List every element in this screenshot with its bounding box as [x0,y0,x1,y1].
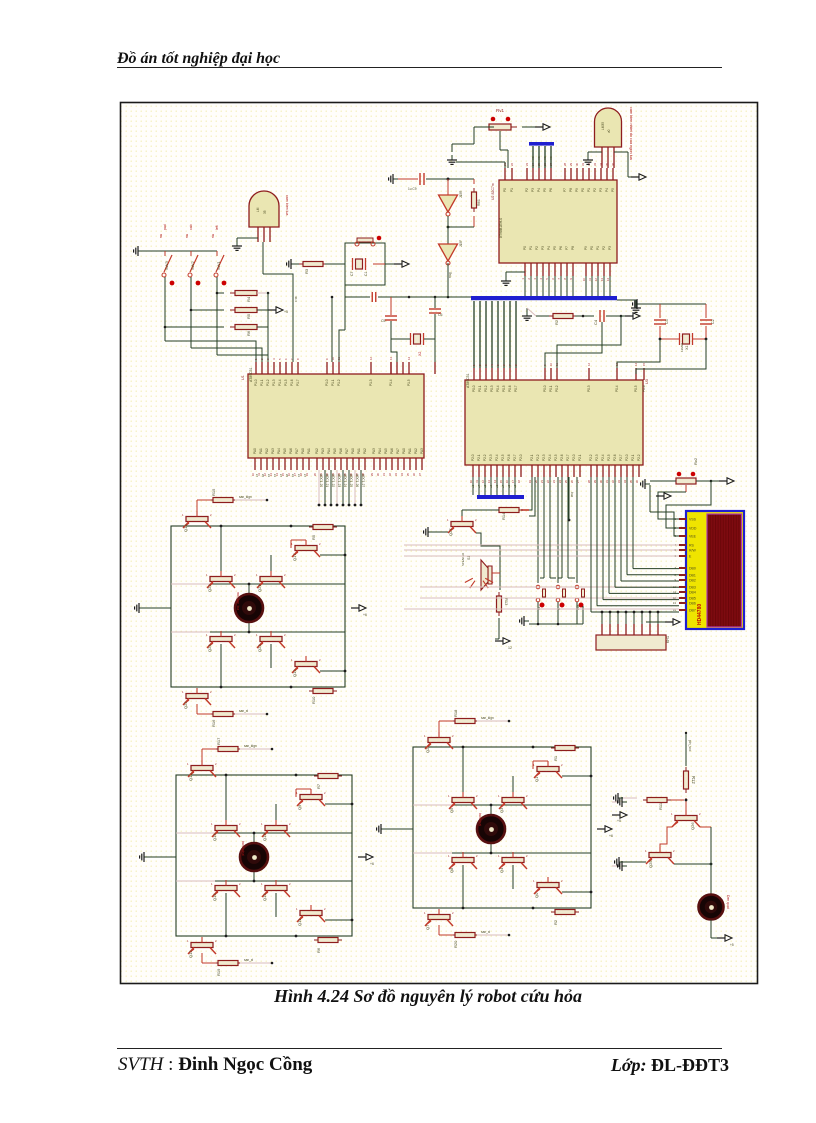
svg-text:Den quat: Den quat [726,895,730,909]
svg-text:a5: a5 [483,484,487,488]
svg-text:Q11: Q11 [297,918,302,926]
svg-text:san_xl: san_xl [239,709,249,713]
svg-text:pin_vcc: pin_vcc [688,740,692,752]
svg-text:14: 14 [634,362,638,366]
svg-text:sw: sw [211,233,215,238]
svg-text:P0.3: P0.3 [587,385,591,392]
svg-text:a1: a1 [495,484,499,488]
svg-text:30: 30 [376,473,380,477]
svg-text:R5: R5 [246,313,251,319]
svg-text:PA3: PA3 [372,448,376,454]
svg-text:P2.6: P2.6 [613,454,617,461]
svg-text:SW2: SW2 [190,261,195,270]
svg-text:P1.5: P1.5 [284,379,288,386]
svg-text:Rv1: Rv1 [496,108,504,113]
svg-text:26: 26 [570,480,574,484]
svg-text:DB0: DB0 [689,567,696,571]
svg-text:DB3: DB3 [689,586,696,590]
svg-text:Q17: Q17 [292,553,297,561]
svg-text:VSS: VSS [689,518,697,522]
svg-text:R3: R3 [304,268,309,274]
svg-text:PA6: PA6 [390,448,394,454]
svg-text:10: 10 [469,480,473,484]
svg-text:20: 20 [313,473,317,477]
svg-text:10: 10 [251,473,255,477]
svg-text:cab: cab [189,224,193,230]
svg-text:P1.5: P1.5 [407,379,411,386]
svg-text:34: 34 [400,473,404,477]
svg-text:Q19: Q19 [292,669,297,677]
svg-text:pad: pad [163,224,167,230]
svg-text:P0.1: P0.1 [549,385,553,392]
svg-text:SPEAKER: SPEAKER [461,553,465,566]
svg-text:P2.2: P2.2 [483,454,487,461]
svg-text:17: 17 [511,480,515,484]
svg-text:Q0: Q0 [534,892,539,898]
svg-text:VDD: VDD [689,527,697,531]
svg-text:P2.7: P2.7 [513,454,517,461]
svg-text:P2.0: P2.0 [625,454,629,461]
svg-text:Q13: Q13 [262,833,267,841]
svg-text:DB7: DB7 [689,609,696,613]
svg-text:P1.2: P1.2 [337,379,341,386]
svg-text:PA4: PA4 [327,448,331,454]
svg-text:18: 18 [517,480,521,484]
svg-text:R15: R15 [211,488,216,496]
svg-text:X1: X1 [685,345,689,350]
svg-text:V0: V0 [549,156,553,160]
svg-text:21: 21 [540,480,544,484]
svg-text:23: 23 [525,162,529,166]
svg-text:k5: k5 [285,474,289,478]
svg-text:P0.6: P0.6 [508,385,512,392]
svg-text:P2.5: P2.5 [554,454,558,461]
svg-text:Q8: Q8 [449,867,454,873]
svg-text:P9: P9 [575,188,579,192]
svg-text:P2.5: P2.5 [501,454,505,461]
svg-text:10: 10 [549,362,553,366]
svg-text:34: 34 [623,480,627,484]
svg-text:P5: P5 [611,188,615,192]
svg-text:Q12: Q12 [188,950,193,958]
svg-text:P5: P5 [553,246,557,250]
svg-text:P0.3: P0.3 [490,385,494,392]
svg-text:SW1: SW1 [216,261,221,270]
svg-text:PA7: PA7 [345,448,349,454]
svg-text:P0.0: P0.0 [543,385,547,392]
svg-text:1u C9: 1u C9 [408,187,417,191]
svg-text:ADC1-24: ADC1-24 [343,474,347,487]
svg-text:R18: R18 [453,709,458,717]
svg-text:R4: R4 [246,296,251,302]
svg-text:P2.4: P2.4 [548,454,552,461]
svg-text:P1.4: P1.4 [278,379,282,386]
svg-text:P5: P5 [543,188,547,192]
svg-text:P0: P0 [581,188,585,192]
svg-text:P2.2: P2.2 [637,454,641,461]
svg-text:R16: R16 [211,719,216,727]
svg-text:C1: C1 [364,272,368,276]
svg-text:AT89C51: AT89C51 [249,367,253,382]
svg-text:P1.0: P1.0 [325,379,329,386]
svg-text:k7: k7 [279,474,283,478]
svg-text:C2: C2 [711,319,715,324]
svg-text:Q7: Q7 [425,924,430,930]
svg-text:U2 82C7m: U2 82C7m [491,183,495,200]
svg-text:Q3: Q3 [499,807,504,813]
svg-text:PA4: PA4 [378,448,382,454]
svg-text:k5: k5 [261,474,265,478]
svg-text:12: 12 [508,646,512,650]
svg-text:33: 33 [617,480,621,484]
svg-text:P1.0: P1.0 [254,379,258,386]
svg-text:P2: P2 [535,246,539,250]
svg-text:banh trai: banh trai [478,813,482,826]
svg-text:k3: k3 [291,474,295,478]
svg-text:Q21: Q21 [257,584,262,592]
svg-text:14: 14 [606,278,610,282]
svg-text:Q22: Q22 [207,584,212,592]
svg-text:11: 11 [588,278,592,281]
svg-text:12: 12 [594,278,598,282]
svg-text:12: 12 [481,480,485,484]
svg-text:8T98B1EH-0: 8T98B1EH-0 [499,218,503,238]
svg-text:25: 25 [564,480,568,484]
svg-text:C5: C5 [381,319,386,323]
svg-text:ADC1-23: ADC1-23 [337,474,341,487]
svg-text:P2.0: P2.0 [572,454,576,461]
svg-text:san_klgn: san_klgn [244,744,257,748]
svg-text:Q15: Q15 [262,893,267,901]
svg-text:P1.1: P1.1 [331,379,335,386]
svg-text:P2.3: P2.3 [489,454,493,461]
svg-text:35: 35 [629,480,633,484]
svg-text:R5: R5 [311,534,316,540]
svg-text:V0: V0 [537,156,541,160]
svg-text:19: 19 [528,480,532,484]
svg-text:C4: C4 [593,319,598,325]
svg-text:Q14: Q14 [212,833,217,841]
svg-text:P3: P3 [608,246,612,250]
svg-text:P1: P1 [529,246,533,250]
svg-text:R10: R10 [311,696,316,704]
svg-text:P2.7: P2.7 [566,454,570,461]
svg-text:PA5: PA5 [333,448,337,454]
svg-text:a3: a3 [489,484,493,488]
svg-text:+5: +5 [617,819,621,823]
svg-text:ADC1-27: ADC1-27 [361,474,365,487]
svg-text:Rv2: Rv2 [693,457,698,465]
svg-text:DB6: DB6 [689,602,696,606]
svg-text:P0: P0 [503,188,507,192]
svg-text:+6: +6 [363,613,367,617]
svg-text:k3: k3 [267,474,271,478]
svg-text:P0.7: P0.7 [514,385,518,392]
svg-text:P0.2: P0.2 [555,385,559,392]
svg-text:+6: +6 [370,862,374,866]
svg-text:LM: LM [256,207,260,212]
svg-text:36: 36 [412,473,416,477]
svg-text:R12: R12 [691,776,696,784]
svg-text:P0.2: P0.2 [484,385,488,392]
svg-text:k1: k1 [297,474,301,478]
svg-text:k1: k1 [273,474,277,478]
svg-text:Q2: Q2 [425,747,430,753]
svg-text:P1.1: P1.1 [260,379,264,386]
svg-text:29: 29 [569,162,573,166]
svg-text:a7: a7 [477,484,481,488]
svg-text:R14: R14 [501,512,506,520]
svg-text:Q27: Q27 [448,528,453,536]
svg-text:37: 37 [418,473,422,477]
svg-text:10: 10 [582,278,586,282]
svg-text:PA2: PA2 [265,448,269,454]
svg-text:P0.4: P0.4 [496,385,500,392]
svg-text:PA6: PA6 [289,448,293,454]
svg-text:Q24: Q24 [207,644,212,652]
svg-text:40.4: 40.4 [294,296,298,302]
svg-text:P2.7: P2.7 [619,454,623,461]
svg-text:V0: V0 [531,156,535,160]
svg-text:a7: a7 [501,484,505,488]
svg-text:R17: R17 [216,737,221,745]
svg-text:30: 30 [575,162,579,166]
svg-text:PA0: PA0 [402,448,406,454]
svg-text:P0.5: P0.5 [634,385,638,392]
svg-text:PA7: PA7 [295,448,299,454]
svg-text:22: 22 [510,162,514,166]
svg-text:33: 33 [394,473,398,477]
svg-text:Q26: Q26 [690,822,695,830]
svg-text:PA1: PA1 [259,448,263,454]
svg-text:R11: R11 [658,802,663,810]
svg-text:buz: buz [570,492,574,498]
svg-text:P8: P8 [571,246,575,250]
svg-text:P0.4: P0.4 [615,385,619,392]
svg-text:R2: R2 [554,319,559,325]
svg-text:13: 13 [673,601,677,605]
svg-text:SW3: SW3 [164,261,169,270]
svg-text:36: 36 [635,480,639,484]
svg-text:R6: R6 [246,330,251,336]
svg-text:P2.1: P2.1 [530,454,534,461]
svg-text:DB5: DB5 [689,597,696,601]
svg-text:29: 29 [593,480,597,484]
svg-text:13: 13 [389,356,393,360]
svg-text:P1.6: P1.6 [290,379,294,386]
svg-text:33: 33 [593,162,597,166]
svg-text:PA0: PA0 [351,448,355,454]
svg-text:moi_lay_loa: moi_lay_loa [236,592,240,610]
svg-text:PA2: PA2 [414,448,418,454]
svg-text:P2.6: P2.6 [507,454,511,461]
svg-text:P7: P7 [563,188,567,192]
svg-text:PA2: PA2 [363,448,367,454]
svg-text:P2.3: P2.3 [542,454,546,461]
svg-text:C6: C6 [438,313,443,317]
svg-text:P2.1: P2.1 [477,454,481,461]
svg-text:15: 15 [499,480,503,484]
svg-text:P2.2: P2.2 [536,454,540,461]
svg-text:P2.3: P2.3 [595,454,599,461]
svg-text:P4: P4 [605,188,609,192]
svg-text:PA3: PA3 [321,448,325,454]
svg-text:P6: P6 [549,188,553,192]
svg-text:35: 35 [406,473,410,477]
svg-text:P2.1: P2.1 [631,454,635,461]
svg-text:R7: R7 [316,783,321,789]
svg-text:31: 31 [605,480,609,484]
svg-text:P4: P4 [547,246,551,250]
svg-text:sw: sw [159,233,163,238]
svg-text:P0: P0 [523,246,527,250]
svg-text:HD44780: HD44780 [697,604,703,625]
svg-text:28: 28 [587,480,591,484]
svg-text:san_klgn: san_klgn [481,716,494,720]
svg-text:RS: RS [689,544,695,548]
svg-text:V0: V0 [543,156,547,160]
svg-text:P8: P8 [569,188,573,192]
svg-text:Q25: Q25 [648,860,653,868]
svg-text:P3: P3 [541,246,545,250]
svg-text:P2.0: P2.0 [471,454,475,461]
svg-text:P2: P2 [525,188,529,192]
svg-text:v0: v0 [607,129,611,133]
svg-text:Q18: Q18 [183,524,188,532]
svg-text:ADC1-26: ADC1-26 [355,474,359,487]
svg-text:PA5: PA5 [283,448,287,454]
svg-text:12: 12 [587,362,591,366]
svg-text:12: 12 [369,356,373,360]
svg-text:P1.2: P1.2 [266,379,270,386]
svg-text:P2: P2 [602,246,606,250]
svg-text:banh phai: banh phai [241,841,245,856]
svg-text:PA2: PA2 [315,448,319,454]
svg-text:Q25: Q25 [183,701,188,709]
svg-text:PA0: PA0 [301,448,305,454]
svg-text:14: 14 [493,480,497,484]
svg-text:P1: P1 [510,188,514,192]
svg-text:23: 23 [552,480,556,484]
svg-text:Q5: Q5 [449,807,454,813]
svg-text:P1.7: P1.7 [296,379,300,386]
svg-text:PA4: PA4 [277,448,281,454]
svg-text:J15R: J15R [459,190,463,198]
svg-text:P7: P7 [565,246,569,250]
svg-text:PA3: PA3 [420,448,424,454]
svg-text:LM35: LM35 [601,122,605,130]
svg-text:k7: k7 [255,474,259,478]
svg-text:PA1: PA1 [307,448,311,454]
svg-text:R13: R13 [504,598,509,606]
svg-text:J15F: J15F [459,240,463,247]
svg-text:k7: k7 [303,474,307,478]
svg-text:ADC1-25: ADC1-25 [349,474,353,487]
svg-text:KH1: KH1 [666,636,670,643]
svg-text:a3: a3 [513,484,517,488]
svg-text:Q16: Q16 [212,893,217,901]
svg-text:R6: R6 [316,947,321,953]
svg-text:P2.2: P2.2 [589,454,593,461]
svg-text:P3: P3 [531,188,535,192]
svg-text:R2: R2 [553,919,558,925]
svg-text:AT89C51: AT89C51 [466,373,470,388]
svg-text:P2: P2 [593,188,597,192]
svg-text:a5: a5 [507,484,511,488]
svg-text:Q9: Q9 [297,804,302,810]
svg-text:15: 15 [642,362,646,366]
svg-text:san_klgn: san_klgn [239,495,252,499]
svg-text:DB1: DB1 [689,574,696,578]
svg-text:DB4: DB4 [689,591,696,595]
svg-text:35: 35 [263,210,267,214]
svg-text:14: 14 [407,356,411,360]
svg-text:P0: P0 [590,246,594,250]
svg-text:R1: R1 [553,755,558,761]
svg-text:P1.4: P1.4 [389,379,393,386]
svg-text:P1.3: P1.3 [369,379,373,386]
svg-text:Q1: Q1 [534,776,539,782]
svg-text:PA3: PA3 [271,448,275,454]
svg-text:P9: P9 [584,246,588,250]
svg-text:11: 11 [475,480,479,483]
svg-text:R8/1: R8/1 [477,199,481,206]
svg-text:X2: X2 [418,352,422,356]
svg-text:31: 31 [382,473,386,477]
svg-text:31: 31 [581,162,585,166]
svg-text:P2.5: P2.5 [607,454,611,461]
svg-text:ADC1-20: ADC1-20 [319,474,323,487]
svg-text:PA1: PA1 [357,448,361,454]
svg-text:P4: P4 [537,188,541,192]
svg-text:VEE: VEE [689,535,697,539]
svg-text:P2.6: P2.6 [560,454,564,461]
svg-text:P1: P1 [596,246,600,250]
svg-text:P2.0: P2.0 [519,454,523,461]
svg-text:30: 30 [599,480,603,484]
svg-text:+6: +6 [609,834,613,838]
svg-text:13: 13 [487,480,491,484]
svg-text:U3: U3 [645,379,649,384]
svg-text:C3: C3 [665,319,669,324]
svg-text:ADC1-22: ADC1-22 [331,474,335,487]
svg-text:P0.1: P0.1 [478,385,482,392]
svg-text:a1: a1 [471,484,475,488]
svg-text:+5: +5 [284,310,288,314]
svg-text:12M92: 12M92 [680,342,684,352]
svg-text:P0.0: P0.0 [472,385,476,392]
svg-text:Q10: Q10 [188,773,193,781]
svg-text:PA5: PA5 [384,448,388,454]
svg-text:P0.5: P0.5 [502,385,506,392]
svg-text:P2.1: P2.1 [578,454,582,461]
svg-text:32: 32 [388,473,392,477]
svg-text:R20: R20 [453,940,458,948]
svg-text:P2.4: P2.4 [495,454,499,461]
svg-text:PA6: PA6 [339,448,343,454]
svg-text:san_xl: san_xl [244,958,254,962]
svg-text:PA1: PA1 [408,448,412,454]
svg-text:sw: sw [185,233,189,238]
svg-text:29: 29 [370,473,374,477]
svg-text:PA7: PA7 [396,448,400,454]
svg-text:Q4: Q4 [499,867,504,873]
svg-text:32: 32 [611,480,615,484]
svg-text:PA0: PA0 [253,448,257,454]
svg-text:P1: P1 [587,188,591,192]
svg-text:22: 22 [546,480,550,484]
svg-text:swg: swg [448,272,452,278]
